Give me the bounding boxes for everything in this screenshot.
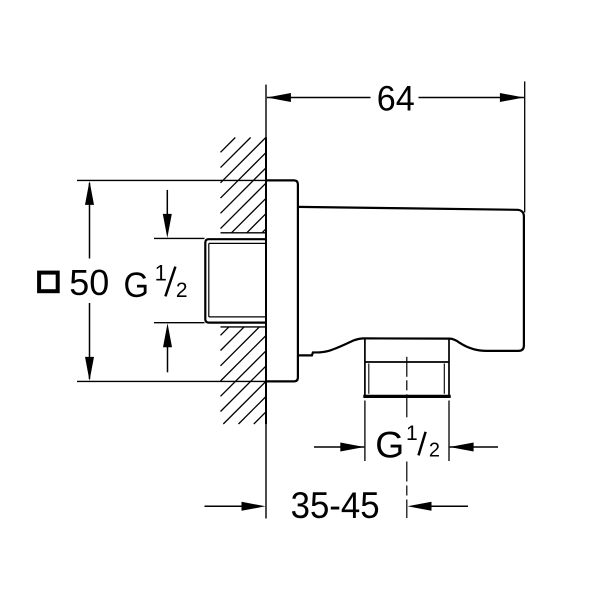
wall line (thicker within hatched section) <box>265 138 267 425</box>
inlet union outline <box>205 239 266 322</box>
outlet mid line <box>365 361 449 363</box>
wall section hatching <box>221 138 267 425</box>
outlet thread dim left tail <box>314 446 364 448</box>
outlet thread line right <box>443 364 445 394</box>
dimension 50 bottom extension line <box>77 380 267 382</box>
wall hole bottom edge <box>221 326 267 328</box>
inlet thread dim down arrow <box>163 214 172 238</box>
dimension 64 right arrow <box>500 93 524 102</box>
svg-text:50: 50 <box>69 262 109 303</box>
dimension 64 extension line <box>524 81 526 212</box>
inlet union inner top line <box>209 242 266 244</box>
dimension 64 line right segment <box>419 97 524 99</box>
outlet thread line left <box>368 364 370 394</box>
outlet left side <box>364 339 366 396</box>
wall hole top edge <box>221 232 267 234</box>
svg-text:1: 1 <box>155 261 167 286</box>
svg-text:G: G <box>124 266 150 305</box>
dimension 35-45 left tail <box>205 505 245 507</box>
dimension 64 left arrow <box>267 93 291 102</box>
body outline <box>298 207 524 356</box>
svg-text:1: 1 <box>406 422 418 445</box>
dimension 50 top extension line <box>77 179 267 181</box>
wall front-surface line <box>265 85 267 519</box>
outlet bottom edge <box>363 395 450 398</box>
dimension 35-45 right arrow <box>408 502 432 511</box>
escutcheon plate outline <box>266 180 298 381</box>
inlet thread dim lower line <box>167 346 169 372</box>
outlet centerline (dashed) <box>406 357 408 518</box>
fraction slash (inlet) <box>165 267 175 297</box>
svg-text:64: 64 <box>377 78 415 118</box>
outlet thread dim right arrow <box>450 443 474 452</box>
dimension 64 line left segment <box>267 97 371 99</box>
square symbol <box>39 273 58 292</box>
dimension 35-45 left arrow <box>242 502 266 511</box>
inlet thread dim top extension line <box>154 237 205 239</box>
inlet union inner bottom line <box>209 316 266 318</box>
svg-text:2: 2 <box>176 279 188 302</box>
outlet thread dim left extension line <box>364 401 366 462</box>
inlet thread dim upper line <box>166 190 168 215</box>
inlet union inner left line <box>208 243 210 317</box>
dimension 50 line upper segment <box>89 183 91 259</box>
fraction slash (outlet) <box>419 432 426 456</box>
svg-text:G: G <box>375 424 404 465</box>
dimension 50 down arrow <box>85 357 94 381</box>
svg-text:35-45: 35-45 <box>291 485 380 526</box>
svg-text:2: 2 <box>429 439 440 461</box>
dimension 50 line lower segment <box>89 303 91 379</box>
dimension 50 up arrow <box>85 181 94 205</box>
outlet thread dim left arrow <box>340 443 364 452</box>
outlet thread dim right extension line <box>448 401 450 462</box>
inlet thread dim up arrow <box>163 323 172 347</box>
outlet right side <box>448 339 450 396</box>
inlet thread dim bottom extension line <box>154 322 205 324</box>
outlet thread dim right tail <box>450 446 498 448</box>
dimension 35-45 right tail <box>429 505 468 507</box>
